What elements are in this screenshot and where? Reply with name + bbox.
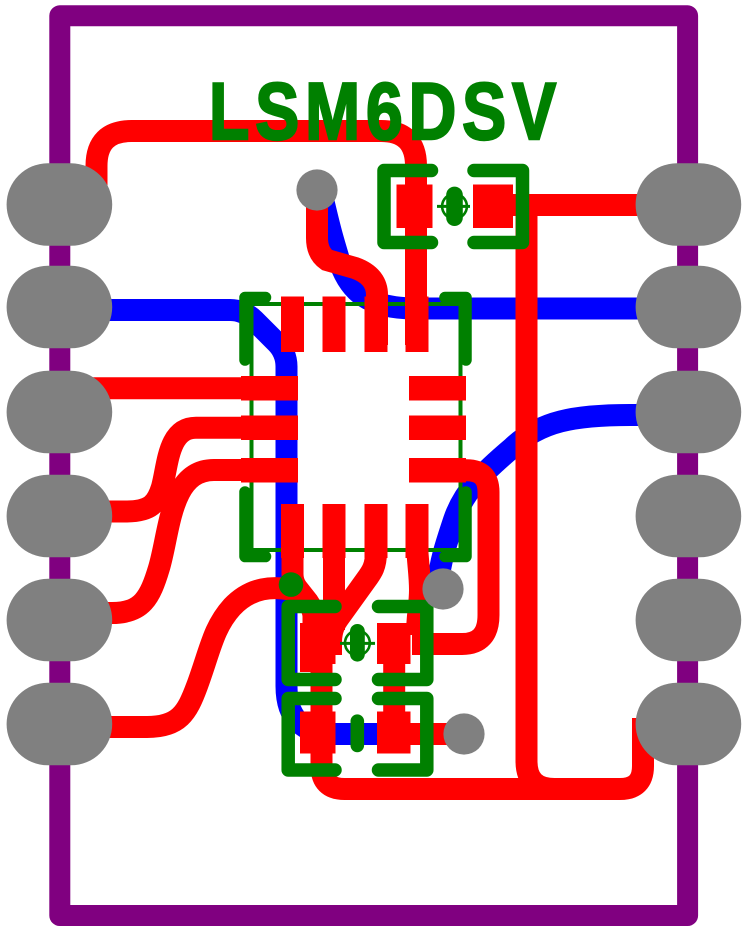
via V3	[443, 713, 484, 754]
pad 3 left	[7, 371, 113, 454]
capacitor C2 right bracket	[379, 607, 427, 680]
U1 corner bracket bottom-left	[245, 492, 266, 557]
via V1	[296, 169, 337, 210]
C3 left pad	[300, 712, 336, 754]
U1 top pad 1	[281, 297, 304, 353]
U1 bottom pad 4	[406, 504, 429, 558]
pad 4 left	[7, 475, 113, 558]
pad 4 right	[636, 475, 742, 558]
pad 5 right	[636, 579, 742, 662]
U1 corner bracket bottom-right	[445, 492, 466, 557]
C2 anchor ring	[345, 631, 370, 656]
C2 left pad	[300, 623, 336, 664]
C2 right pad	[377, 623, 411, 664]
pad 6 right	[636, 683, 742, 766]
wire T16 C3 right pad to via V3	[400, 723, 462, 745]
U1 right pad row3	[409, 458, 466, 483]
pad 5 left	[7, 579, 113, 662]
U1 bottom pad 3	[365, 504, 388, 558]
wire T5 bottom bus with corners up	[322, 660, 644, 789]
wire T2 via V1 to U1 top pad3	[317, 192, 377, 345]
C3 anchor oval	[351, 714, 365, 752]
C1 right pad	[473, 185, 513, 229]
capacitor C3 right bracket	[379, 699, 427, 771]
C3 right pad	[377, 712, 411, 754]
capacitor C1 right bracket	[474, 171, 523, 243]
C2 anchor oval	[350, 624, 365, 662]
via V2	[422, 568, 463, 609]
wire T3 C1 right pad to pad1R	[500, 194, 662, 216]
pad 6 left	[7, 683, 113, 766]
wire T10 U1 bottom pad1 to C2 left pad	[293, 545, 314, 640]
wire T14 U1 right pad3 to C2 right pad nub	[412, 470, 489, 644]
pad 1 left	[7, 163, 113, 246]
capacitor C2 left bracket	[288, 607, 335, 680]
C1 anchor crossline	[437, 205, 470, 208]
wire T6 pad3L to U1 left pad1	[55, 377, 290, 399]
C2 left pad bottom stub	[300, 660, 312, 672]
pad 1 right	[636, 163, 742, 246]
pad 2 right	[636, 266, 742, 349]
wire T12 U1 bottom pad3 to C2 right pad	[331, 545, 376, 655]
wire T13 U1 bottom pad4 to C2 right pad	[417, 545, 420, 635]
capacitor C1 left bracket	[384, 171, 432, 243]
U1 bottom pad 2	[323, 504, 346, 558]
U1 right pad row2	[409, 416, 466, 441]
wire T4 long vertical from T3 down	[527, 199, 555, 789]
green dot node marker	[279, 572, 304, 597]
pad 3 right	[636, 371, 742, 454]
wire T15 C2 left pad down through C3 left pad	[311, 650, 333, 700]
capacitor C3 left bracket	[288, 699, 335, 771]
U1 top pad 4	[406, 297, 429, 353]
pad 2 left	[7, 266, 113, 349]
U1 top pad 3	[365, 297, 388, 353]
wire T9 pad6L S-curve to node at green dot	[55, 588, 301, 727]
U1 left pad row1	[241, 376, 298, 401]
wire B2 via V1 to pad2R	[322, 195, 665, 309]
U1 right pad row1	[409, 376, 466, 401]
U1 bottom pad 1	[281, 504, 304, 558]
wire C2 right pad down to C3 right pad	[383, 655, 405, 720]
wire B1 pad2L to via V3	[55, 310, 458, 734]
C1 anchor oval	[446, 187, 463, 226]
wire T11 U1 bottom pad2 to C2 left pad	[323, 545, 345, 630]
wire T7 pad4L S-curve to U1 left pad2	[55, 428, 290, 512]
C1 anchor ring	[442, 194, 467, 219]
U1 corner bracket top-right	[445, 298, 466, 361]
U1 top pad 2	[323, 297, 346, 353]
U1 left pad row2	[241, 416, 298, 441]
wire T1 pad1L up over to C1 pad and U1 top pad4	[97, 131, 417, 345]
C1 left pad	[397, 185, 433, 229]
svg-text:LSM6DSV: LSM6DSV	[209, 66, 562, 157]
U1 left pad row3	[241, 458, 298, 483]
wire T8 pad5L S-curve to U1 left pad3	[55, 470, 290, 613]
C2 anchor crossline	[340, 642, 375, 645]
U1 corner bracket top-left	[245, 298, 266, 361]
wire B3 pad3R to via V2	[438, 415, 665, 584]
IC U1 outline (thin fab line, under copper)	[252, 304, 461, 550]
